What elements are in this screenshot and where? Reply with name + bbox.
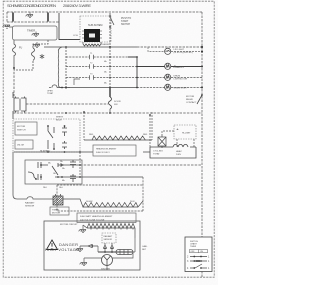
top bus L1 [7, 12, 202, 277]
wire left bus down [13, 68, 15, 98]
svg-text:SWITCH: SWITCH [121, 24, 130, 26]
wire hop [27, 197, 53, 199]
legend row2 [190, 260, 207, 262]
svg-text:TIMER: TIMER [52, 210, 59, 212]
page border [3, 1, 214, 277]
svg-text:5400W: 5400W [86, 201, 92, 203]
hi-limit dashed box [174, 125, 196, 139]
legend row3 [190, 264, 207, 268]
wire L2 drop right of timer [59, 13, 80, 40]
circle 4 [165, 84, 171, 90]
burner box [44, 221, 140, 270]
contacts inside [48, 126, 67, 149]
svg-text:START: START [121, 20, 129, 23]
ground left [9, 25, 13, 27]
svg-text:HEATING ELEMENT: HEATING ELEMENT [96, 148, 117, 151]
push to start switch [109, 13, 111, 47]
svg-text:RADIANT: RADIANT [25, 202, 35, 205]
svg-text:SUB-SCHEM: SUB-SCHEM [88, 24, 102, 27]
heater2 zigzag [63, 199, 143, 207]
left bus bottom turn [13, 152, 27, 199]
svg-text:RELAY: RELAY [186, 98, 194, 101]
relay rect [143, 144, 196, 158]
left contact feeder vertical [65, 47, 67, 88]
svg-text:MOTOR: MOTOR [186, 96, 195, 98]
svg-text:SCHEMATIC CONDITION DOOR OPEN: SCHEMATIC CONDITION DOOR OPEN [7, 3, 56, 8]
svg-text:HIGH VOLTAGE: HIGH VOLTAGE [45, 247, 79, 252]
svg-text:TIMER: TIMER [190, 246, 197, 248]
svg-text:DRUM: DRUM [174, 76, 181, 78]
row 4 y87.5 [49, 87, 202, 89]
coil block [116, 250, 133, 255]
ground below box [36, 42, 38, 44]
ground in timer box [35, 32, 37, 34]
motor switch dashed box [13, 119, 80, 152]
terminal L1 [12, 13, 14, 22]
svg-text:RED: RED [89, 134, 94, 136]
svg-text:HI-LIMIT: HI-LIMIT [182, 133, 191, 135]
svg-text:Buzzer: Buzzer [174, 65, 185, 69]
bus y152 [14, 151, 93, 153]
corner mark [66, 79, 80, 89]
svg-text:-A-: -A- [176, 128, 179, 131]
label box 2 [15, 140, 33, 149]
row 2 y66.5 [66, 66, 137, 68]
contacts in box [28, 160, 76, 182]
relay black square [84, 29, 100, 42]
lamp circle 1 [165, 48, 171, 54]
row2 right solid to circle2 [137, 66, 202, 68]
lamp row y51.5 [148, 47, 202, 52]
right bus [201, 12, 203, 277]
burner right wires [84, 246, 133, 270]
thermal fuse squiggle left [13, 40, 16, 67]
terminal N [47, 13, 49, 22]
svg-text:240V: 240V [176, 154, 182, 156]
svg-text:SENSOR: SENSOR [25, 206, 35, 208]
label box 1 [15, 122, 37, 135]
row y165 long [62, 164, 80, 166]
vertical x80 [79, 152, 81, 177]
drum light circle 3 [165, 74, 171, 80]
svg-text:TM: TM [92, 45, 95, 47]
paper noise [0, 0, 218, 285]
svg-text:TSTAT: TSTAT [47, 92, 54, 95]
bus in burner box [98, 251, 133, 253]
svg-text:THERM: THERM [101, 44, 109, 46]
sensor dashed box [102, 233, 116, 243]
timer motor hatched [53, 194, 63, 205]
bus y113 [13, 104, 202, 113]
svg-text:FU: FU [19, 47, 22, 50]
svg-text:GUIDE LIGHT: GUIDE LIGHT [174, 88, 189, 90]
svg-text:HEAT: HEAT [176, 150, 182, 153]
corner down [128, 57, 137, 88]
svg-text:IGNITER: IGNITER [101, 269, 110, 271]
zigzag under relay [83, 42, 101, 46]
svg-text:SENSOR: SENSOR [104, 239, 113, 241]
sub-schematic dashed box [80, 16, 111, 42]
svg-text:CYCLING: CYCLING [153, 151, 163, 153]
svg-text:(IF SO EQUIPPED): (IF SO EQUIPPED) [174, 52, 193, 54]
heater1 label box [93, 145, 136, 156]
second bus [7, 12, 59, 22]
svg-text:SWITCH: SWITCH [17, 130, 26, 132]
svg-text:DOOR: DOOR [114, 101, 121, 103]
svg-text:LIGHT/DOOR: LIGHT/DOOR [174, 79, 188, 81]
burner zigzag top [83, 224, 135, 239]
svg-text:COIL: COIL [73, 35, 79, 37]
ground under zigzag [82, 225, 84, 229]
svg-text:TSTAT: TSTAT [153, 153, 160, 156]
motor igniter circle [102, 255, 113, 266]
warning triangle [47, 240, 58, 250]
svg-text:1M 2M: 1M 2M [17, 145, 24, 147]
legend box [185, 237, 212, 272]
buzzer circle 2 [165, 63, 171, 69]
thermostat mark [40, 54, 44, 59]
svg-text:RADIANT: RADIANT [104, 235, 114, 238]
row 1 y57 [66, 56, 137, 58]
svg-text:TIMER: TIMER [27, 29, 35, 33]
svg-text:208/240V 3-WIRE: 208/240V 3-WIRE [63, 3, 91, 8]
svg-text:CABI-: CABI- [142, 245, 148, 248]
svg-text:CONTACT: CONTACT [186, 101, 197, 104]
diode pair vertical [104, 243, 114, 252]
svg-text:PUSH TO: PUSH TO [121, 18, 131, 20]
ground top center [29, 12, 31, 14]
wavy resistor vertical [58, 47, 62, 88]
svg-text:MOTOR: MOTOR [17, 126, 26, 128]
svg-text:LID LIGHT: LID LIGHT [174, 49, 185, 51]
svg-text:WHITE: WHITE [56, 117, 64, 119]
timer motor label box [50, 207, 69, 215]
connector on left bus [13, 92, 26, 119]
svg-text:5400 WATT HEATING ELEMENT: 5400 WATT HEATING ELEMENT [80, 215, 113, 218]
legend row1 [190, 256, 207, 258]
row y177 long [55, 176, 143, 178]
heater2 label box [77, 213, 136, 223]
hump thermostat [52, 85, 57, 88]
junction [13, 67, 15, 69]
svg-text:BLUE: BLUE [56, 120, 62, 122]
svg-text:HI SPEED: HI SPEED [40, 151, 51, 153]
svg-text:MOTOR CIRCUIT: MOTOR CIRCUIT [60, 224, 78, 226]
bus N y47 [44, 46, 137, 48]
svg-text:RED: RED [143, 134, 148, 136]
connect wires [150, 115, 194, 147]
heater1 feeder verticals [84, 112, 152, 140]
svg-text:5400 W 240 V: 5400 W 240 V [96, 152, 110, 154]
svg-text:240V: 240V [130, 201, 135, 203]
row 3 y77.5 [66, 77, 202, 79]
squiggle branch 2 [14, 40, 48, 70]
heater1 zigzag [84, 136, 152, 140]
hatched component [158, 134, 166, 148]
svg-text:MOTOR: MOTOR [52, 213, 61, 215]
horizontal diode row [80, 245, 98, 248]
door switch on vertical [109, 47, 111, 88]
timer box [13, 26, 58, 40]
heater box big [57, 177, 143, 211]
